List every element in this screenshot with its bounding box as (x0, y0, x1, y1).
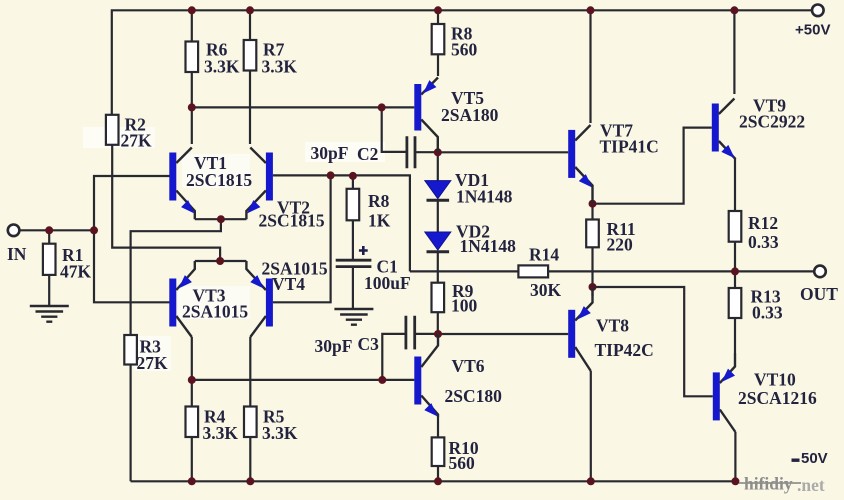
wire VD2 to R9 (437, 252, 439, 283)
wire R12 bottom to OUT node (734, 242, 736, 272)
resistor R6 3.3K (186, 42, 199, 73)
wire OUT rail left (410, 270, 519, 272)
wire R8b bottom to C1 (352, 220, 354, 259)
terminal IN (8, 225, 20, 237)
svg-text:+50V: +50V (795, 22, 830, 39)
wire VT10 collector to rail (734, 432, 736, 481)
svg-text:2SC2922: 2SC2922 (739, 112, 805, 132)
resistor R4 3.3K (186, 407, 199, 438)
resistor R8a 560 (432, 24, 445, 54)
wire bottom rail -50V (131, 480, 736, 482)
svg-text:560: 560 (451, 40, 478, 60)
transistor VT8 TIP42C PNP (568, 287, 592, 371)
transistor VT2 2SC1815 NPN mirrored (246, 148, 273, 220)
wire IN to VT3 base (94, 230, 170, 302)
wire R7 top (249, 10, 251, 40)
wire VT4 base riser (273, 175, 331, 302)
terminal +50V (812, 5, 824, 17)
wire R4 bottom to rail (191, 437, 193, 481)
wire IN line (20, 229, 94, 231)
svg-text:1N4148: 1N4148 (456, 187, 513, 207)
wire C3 right (416, 333, 438, 335)
svg-text:VT6: VT6 (452, 356, 485, 376)
svg-text:R12: R12 (748, 213, 778, 233)
svg-text:R14: R14 (529, 245, 559, 265)
svg-text:OUT: OUT (800, 284, 838, 304)
resistor R2 27K (106, 115, 119, 145)
svg-text:560: 560 (449, 453, 476, 473)
wire VT8 collector to rail (590, 371, 592, 481)
node dot R4 VT6 base (188, 376, 196, 384)
wire VT6 base line (192, 379, 414, 381)
svg-text:2SC1815: 2SC1815 (259, 211, 325, 231)
svg-text:2SC180: 2SC180 (445, 386, 503, 406)
svg-text:0.33: 0.33 (752, 303, 783, 323)
transistor VT9 2SC2922 NPN (712, 99, 735, 160)
wire R8b top (352, 175, 354, 188)
wire R11 top (591, 204, 593, 220)
terminal OUT (814, 266, 826, 278)
svg-text:27K: 27K (121, 131, 153, 151)
node dot VT4 base riser (327, 171, 335, 179)
node dot VT8 emitter (589, 283, 597, 291)
capacitor C1 100uF electrolytic (336, 260, 372, 266)
capacitor C2 30pF (407, 136, 415, 168)
node dot R8b top (349, 172, 357, 180)
wire C3 riser (382, 334, 404, 380)
transistor VT1 2SC1815 NPN (169, 148, 195, 220)
wire R9 bottom to node (437, 312, 439, 334)
svg-text:TIP42C: TIP42C (595, 340, 654, 360)
wire VT7 collector riser (589, 10, 591, 123)
svg-text:VT8: VT8 (596, 316, 629, 336)
node dot VT5 base C2 (378, 103, 386, 111)
svg-text:.net: .net (797, 475, 825, 495)
wire R1 top (48, 230, 50, 243)
resistor R10 560 (432, 437, 445, 466)
wire R13 bottom to VT10 emitter (734, 318, 736, 353)
wire VT1 VT2 emitter link (195, 218, 247, 220)
transistor VT6 2SC180 NPN (414, 334, 438, 417)
wire C2 right (416, 151, 438, 153)
wire R8a top (437, 10, 439, 24)
transistor VT3 2SA1015 PNP (169, 261, 195, 337)
svg-text:100uF: 100uF (364, 273, 411, 293)
node dot VAS top (434, 148, 442, 156)
wire emitter node to R3 (131, 219, 221, 335)
svg-text:50V: 50V (801, 450, 828, 467)
wire node A to VT5 base (192, 106, 414, 108)
svg-text:2SC1815: 2SC1815 (186, 170, 252, 190)
svg-text:30pF: 30pF (311, 143, 349, 163)
diode VD2 1N4148 (425, 232, 451, 252)
wire VT8 base line (438, 333, 568, 335)
wire VT7 base line (438, 151, 568, 153)
resistor R9 100 (432, 283, 445, 313)
wire VT3 VT4 emitter link (195, 260, 247, 262)
svg-text:hifidiy: hifidiy (744, 474, 793, 494)
wire OUT rail right (548, 270, 814, 272)
svg-text:3.3K: 3.3K (204, 57, 240, 77)
wire VT5 emitter riser (437, 54, 439, 76)
node dots IN line (45, 226, 53, 234)
node dot PNP emitters (216, 257, 224, 265)
wire R10 bottom to rail (437, 466, 439, 481)
svg-text:30pF: 30pF (315, 336, 353, 356)
resistor R14 30K horizontal (518, 265, 548, 277)
wire R3 bottom to rail (130, 365, 132, 482)
wire VT9 emitter to R12 (734, 159, 736, 211)
svg-text:1K: 1K (368, 211, 391, 231)
wire R6 bottom to node A (191, 72, 193, 144)
transistor VT5 2SA180 PNP (414, 78, 438, 153)
transistor VT10 2SCA1216 PNP (713, 353, 736, 432)
node dot NPN emitters (217, 215, 225, 223)
transistor VT7 TIP41C NPN (568, 125, 592, 204)
wire VT3 collector to R4 (191, 337, 193, 407)
node dot OUT (731, 267, 739, 275)
svg-text:2SCA1216: 2SCA1216 (738, 388, 817, 408)
wire VD1 to VD2 (437, 200, 439, 232)
resistor R11 220 (586, 220, 599, 248)
svg-text:27K: 27K (137, 353, 169, 373)
ground under C1 (334, 309, 373, 325)
wire R5 bottom to rail (249, 437, 251, 481)
wire VT9 collector riser (733, 10, 735, 94)
wire VT4 collector to R5 (249, 337, 251, 407)
svg-text:3.3K: 3.3K (262, 423, 298, 443)
resistor R13 0.33 (729, 288, 742, 318)
wire R1 bottom to ground (48, 275, 50, 306)
svg-text:2SA1015: 2SA1015 (182, 302, 248, 322)
svg-text:TIP41C: TIP41C (600, 137, 659, 157)
background halo patches (83, 127, 385, 371)
capacitor C3 30pF (406, 316, 415, 350)
svg-text:1N4148: 1N4148 (460, 236, 517, 256)
wire IN to VT1 base (94, 176, 170, 230)
wire R2 tail to PNP emitters (112, 145, 220, 259)
resistor R12 0.33 (729, 211, 742, 242)
ground under R1 (30, 306, 69, 322)
svg-text:C2: C2 (357, 144, 378, 164)
wire VT7 emitter to VT9 base (593, 128, 712, 204)
svg-text:3.3K: 3.3K (203, 423, 239, 443)
svg-text:IN: IN (7, 244, 27, 264)
watermark hifidiy.net (739, 474, 825, 496)
svg-text:VT10: VT10 (754, 370, 796, 390)
wire VAS node to VD1 (437, 152, 439, 181)
node dots bottom rail (188, 477, 740, 485)
resistor R8b 1K (347, 189, 360, 221)
svg-text:3.3K: 3.3K (262, 57, 298, 77)
resistor R7 3.3K (244, 40, 257, 71)
node dot VT7 emitter (589, 200, 597, 208)
svg-text:R8: R8 (368, 191, 390, 211)
wire R7 bottom to VT2 collector (249, 71, 251, 145)
wire VT8 emitter drop (591, 287, 593, 296)
svg-text:2SA180: 2SA180 (441, 105, 499, 125)
svg-text:30K: 30K (530, 280, 562, 300)
svg-text:VT4: VT4 (272, 274, 305, 294)
wire C1 bottom to ground (352, 267, 354, 308)
wire R11 bottom (591, 247, 593, 287)
label -50V (792, 450, 828, 467)
wire R13 top (734, 271, 736, 288)
wire R6 top (191, 10, 193, 41)
svg-text:0.33: 0.33 (748, 232, 779, 252)
resistor R3 27K (124, 335, 137, 365)
wire VT2 base feedback line (273, 175, 410, 271)
node dots top rail (188, 6, 739, 14)
wire VT6 emitter to R10 (437, 417, 439, 437)
node dot VT1 collector R6 (188, 103, 196, 111)
node dot VT6 collector (434, 330, 442, 338)
wire C2 left (382, 107, 406, 152)
resistor R1 47K (43, 244, 56, 275)
resistor R5 3.3K (244, 407, 257, 438)
wire VT8 node to VT10 base (593, 287, 713, 396)
svg-text:47K: 47K (60, 262, 92, 282)
svg-text:100: 100 (451, 296, 478, 316)
svg-text:220: 220 (607, 235, 634, 255)
capacitor C1 plus sign (359, 246, 368, 255)
wire top rail +50V (112, 10, 812, 115)
node dot C3 riser (378, 376, 386, 384)
transistor VT4 2SA1015 PNP mirrored (246, 261, 273, 337)
diode VD1 1N4148 (425, 181, 451, 201)
svg-text:C3: C3 (358, 334, 380, 354)
